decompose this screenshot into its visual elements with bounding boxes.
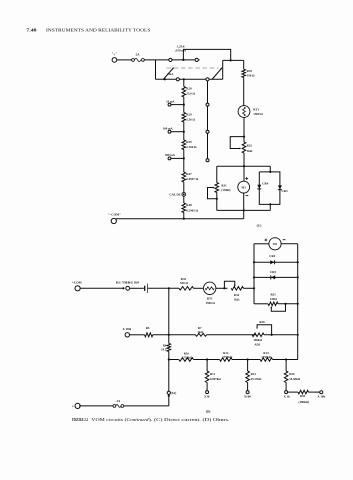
wiper 1mA: [163, 67, 174, 80]
rheostat R36: [252, 320, 273, 347]
wire: [130, 334, 145, 336]
ganged switch dashed link: [167, 67, 219, 69]
svg-text:CR5: CR5: [270, 270, 276, 274]
svg-text:R30: R30: [186, 140, 192, 144]
svg-text:23.6 Ω: 23.6 Ω: [186, 91, 195, 95]
resistor R5: [145, 326, 153, 337]
wire switch right edge: [222, 60, 224, 79]
wire: [243, 78, 245, 106]
wire: [183, 150, 185, 173]
wire: [183, 122, 185, 140]
terminal X10k: [317, 391, 325, 399]
svg-text:+COM: +COM: [72, 281, 82, 285]
svg-text:CR3: CR3: [282, 189, 288, 193]
svg-text:1755kΩ: 1755kΩ: [182, 355, 193, 359]
wire: [243, 153, 245, 166]
switch contact column: [206, 81, 209, 162]
meter M1 dc: [238, 166, 250, 195]
wire: [194, 287, 204, 289]
svg-text:16.58kΩ: 16.58kΩ: [289, 377, 300, 381]
wire to R35 branch: [223, 59, 244, 61]
svg-text:R47: R47: [186, 172, 192, 176]
resistor R47: [182, 172, 199, 182]
svg-text:M1: M1: [273, 242, 278, 246]
wiper right: [212, 67, 223, 79]
svg-text:1500 Ω: 1500 Ω: [253, 112, 263, 116]
diode CR3: [278, 185, 288, 193]
svg-text:2.36 Ω: 2.36 Ω: [186, 117, 195, 121]
svg-text:). (C) Direct current. (D) Ohm: ). (C) Direct current. (D) Ohms.: [149, 417, 230, 422]
wire: [148, 287, 179, 289]
resistor R11: [205, 360, 221, 391]
svg-text:1755kΩ: 1755kΩ: [261, 355, 272, 359]
tap 500mA: [165, 153, 184, 160]
svg-text:R35: R35: [247, 69, 253, 73]
svg-text:R96: R96: [289, 372, 295, 376]
svg-text:2A: 2A: [135, 52, 140, 56]
tap 10mA: [166, 99, 184, 106]
wire: [243, 117, 245, 142]
thermistor RT1 ohms: [204, 282, 216, 305]
node bypass tap: [182, 59, 184, 61]
resistor R28: [182, 87, 195, 98]
svg-text:100kΩ: 100kΩ: [253, 338, 262, 342]
ladder right rail: [297, 244, 299, 360]
wire meter to common: [243, 193, 245, 219]
switch left edge wire: [155, 60, 157, 79]
contact X1: [167, 391, 176, 397]
svg-text:(X1): (X1): [171, 391, 177, 395]
resistor R95: [288, 390, 320, 404]
tap 100mA: [163, 126, 184, 133]
terminal X100: [244, 391, 251, 399]
svg-text:(1MΩ): (1MΩ): [221, 188, 230, 192]
rheostat R31 ohms: [254, 292, 299, 311]
svg-text:R29: R29: [186, 113, 192, 117]
svg-text:R32: R32: [234, 293, 240, 297]
svg-text:RT1: RT1: [207, 297, 213, 301]
svg-text:R13: R13: [251, 372, 257, 376]
contact: [169, 58, 172, 61]
R31 wiper loop: [208, 187, 218, 200]
wire: [183, 213, 185, 220]
wire: [232, 358, 260, 360]
svg-text:2.106 Ω: 2.106 Ω: [186, 145, 197, 149]
meter M1 ohms: [254, 238, 298, 250]
meter box left rail: [216, 166, 218, 210]
svg-text:R36: R36: [259, 320, 265, 324]
svg-text:1755kΩ: 1755kΩ: [222, 355, 233, 359]
svg-text:10 mA: 10 mA: [166, 99, 175, 103]
thermistor RT1: [238, 106, 263, 118]
wire: [183, 97, 185, 113]
wire plus to fuse: [117, 59, 132, 61]
diode box: [259, 166, 280, 210]
meter box bottom rung: [217, 209, 270, 211]
wire: [130, 287, 144, 289]
resistor R96: [284, 360, 300, 391]
svg-text:FIGURE 2.2: FIGURE 2.2: [72, 417, 88, 422]
svg-text:ADJ: ADJ: [254, 343, 260, 347]
svg-text:R5: R5: [146, 326, 150, 330]
node shunt chain: [183, 78, 185, 80]
wire: [80, 287, 122, 289]
svg-text:X 10Ω: X 10Ω: [123, 327, 132, 331]
wire: [153, 334, 196, 336]
svg-text:1kΩ: 1kΩ: [234, 298, 240, 302]
svg-text:R31: R31: [221, 183, 227, 187]
diode CR4 ohms: [253, 254, 299, 264]
wire common: [116, 218, 244, 220]
svg-text:150 Ω: 150 Ω: [247, 74, 255, 78]
svg-text:"+": "+": [112, 52, 117, 56]
svg-text:(C): (C): [257, 224, 262, 228]
page header: [26, 28, 150, 33]
svg-text:"−COM": "−COM": [108, 212, 121, 216]
wire: [183, 196, 185, 203]
svg-text:X 10k: X 10k: [317, 395, 325, 399]
svg-text:+: +: [72, 404, 74, 408]
terminal -COM: [108, 212, 121, 223]
svg-text:R1 THRU R9: R1 THRU R9: [116, 280, 140, 284]
svg-text:R48: R48: [186, 203, 192, 207]
node: [230, 59, 232, 61]
contact col top: [206, 78, 209, 81]
wire: [244, 287, 256, 289]
svg-text:R95: R95: [300, 394, 306, 398]
figure caption: [72, 417, 230, 422]
terminal X10ohm: [123, 327, 132, 337]
wire: [168, 352, 170, 406]
resistor R14: [260, 351, 273, 361]
label 1.25A .050mA: [175, 45, 187, 53]
svg-text:CR4: CR4: [269, 254, 275, 258]
contact: [195, 58, 198, 61]
wire: [183, 182, 185, 192]
wire: [124, 405, 169, 407]
terminal X10: [204, 391, 210, 399]
svg-text:100 mA: 100 mA: [163, 126, 174, 130]
svg-text:R11: R11: [210, 372, 216, 376]
battery cell: [145, 284, 148, 293]
svg-text:R28: R28: [186, 87, 192, 91]
svg-text:.050 mA: .050 mA: [175, 49, 187, 53]
wire: [183, 79, 185, 86]
wire ohms main vertical: [168, 288, 170, 343]
resistor R13: [246, 360, 262, 391]
resistor R35: [242, 60, 255, 77]
svg-text:1kΩ: 1kΩ: [247, 149, 253, 153]
svg-text:1MΩ: 1MΩ: [270, 297, 277, 301]
label (D): [206, 409, 211, 413]
svg-text:550 Ω: 550 Ω: [180, 281, 188, 285]
svg-text:CR4: CR4: [262, 182, 268, 186]
meter box top rung: [217, 165, 270, 167]
terminal X1k: [284, 391, 291, 399]
svg-text:R32: R32: [247, 144, 253, 148]
svg-text:1kΩ: 1kΩ: [197, 330, 203, 334]
wire: [207, 334, 257, 336]
fuse 2A ohms: [113, 399, 124, 408]
switch common bar: [156, 78, 223, 80]
resistor R10: [179, 351, 194, 361]
svg-text:19.5: 19.5: [161, 348, 167, 352]
terminal +COM: [72, 281, 82, 291]
node: [243, 136, 245, 138]
wire 1.25A bypass: [183, 49, 230, 60]
wire: [194, 358, 220, 360]
wire: [264, 334, 299, 336]
diode CR4: [257, 182, 268, 189]
rheostat R32 ohms: [224, 281, 243, 301]
resistor R12: [220, 351, 233, 361]
svg-text:6.897kΩ: 6.897kΩ: [210, 377, 221, 381]
svg-text:0.2463 Ω: 0.2463 Ω: [186, 209, 198, 213]
label (C): [257, 224, 262, 228]
resistor R7: [196, 326, 207, 336]
svg-text:VOM circuits (: VOM circuits (: [91, 417, 127, 422]
svg-text:Continued: Continued: [127, 417, 150, 422]
svg-text:X10: X10: [204, 395, 210, 399]
svg-text:R31: R31: [271, 292, 277, 296]
wire: [273, 358, 298, 360]
svg-text:29.17kΩ: 29.17kΩ: [251, 377, 262, 381]
wire: [169, 359, 179, 361]
wire: [79, 405, 113, 407]
resistor R33: [179, 277, 194, 290]
svg-text:M1: M1: [242, 186, 247, 190]
svg-text:7.48: 7.48: [26, 28, 37, 33]
resistor R30: [182, 140, 197, 150]
terminal + ohms: [72, 403, 81, 408]
ladder left rail: [253, 244, 255, 304]
terminal + (plus): [112, 52, 117, 62]
rheostat R32 loop: [230, 137, 244, 150]
rheostat R31: [215, 183, 230, 193]
cal dc adjust point: [169, 192, 185, 196]
svg-text:(180kΩ): (180kΩ): [299, 400, 310, 404]
wire fuse to switch: [144, 59, 199, 61]
svg-text:INSTRUMENTS AND RELIABILITY TO: INSTRUMENTS AND RELIABILITY TOOLS: [46, 29, 150, 33]
diode CR5 ohms: [253, 270, 299, 279]
wire: [216, 287, 228, 289]
contact: [176, 78, 179, 81]
resistor R9: [161, 343, 170, 351]
resistor R29: [182, 113, 195, 123]
svg-text:1mA: 1mA: [167, 72, 174, 76]
svg-text:500 mA: 500 mA: [165, 153, 176, 157]
svg-text:X100: X100: [244, 395, 251, 399]
svg-text:(D): (D): [206, 409, 211, 413]
fuse 2A top: [132, 52, 145, 61]
contact R1-R9: [116, 280, 140, 290]
svg-text:X 1k: X 1k: [284, 395, 291, 399]
svg-text:CAL DC: CAL DC: [169, 192, 181, 196]
svg-text:0.4997 Ω: 0.4997 Ω: [186, 177, 198, 181]
resistor R32: [242, 142, 253, 153]
svg-text:1500 Ω: 1500 Ω: [205, 301, 215, 305]
resistor R48: [182, 203, 199, 213]
